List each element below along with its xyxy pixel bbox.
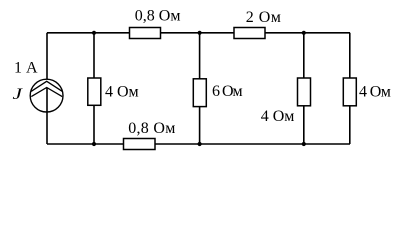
resistor 6 Ом (vertical, branch 3) (193, 79, 206, 107)
node: bottom junction of branch 3 (198, 142, 202, 146)
resistor 0,8 Ом (top left horizontal) (130, 28, 161, 39)
svg-text:J: J (13, 86, 24, 103)
wire: top horizontal from left branch to right branch (47, 32, 350, 34)
svg-text:4 Ом: 4 Ом (359, 84, 391, 101)
svg-text:4 Ом: 4 Ом (105, 83, 139, 100)
svg-text:4 Ом: 4 Ом (261, 108, 295, 125)
svg-text:0,8 Ом: 0,8 Ом (128, 120, 175, 137)
resistor 0,8 Ом (bottom horizontal) (124, 139, 156, 150)
current source J (circle with double arrowhead, GOST symbol) (30, 79, 63, 112)
svg-text:1 А: 1 А (14, 59, 38, 76)
wire: vertical branch 3 (6 Ом resistor) (199, 33, 201, 144)
wire: bottom horizontal from left branch to right branch (47, 143, 350, 145)
resistor 4 Ом (vertical, branch 4) (298, 78, 311, 106)
svg-text:2 Ом: 2 Ом (246, 9, 282, 26)
node: top junction of branch 4 (302, 31, 306, 35)
node: bottom junction of branch 4 (302, 142, 306, 146)
wire: vertical branch 4 (4 Ом resistor) (303, 33, 305, 144)
resistor 4 Ом (vertical, right branch) (343, 78, 356, 106)
node: top junction of branch 3 (198, 31, 202, 35)
node: bottom junction of branch 2 (92, 142, 96, 146)
resistor 4 Ом (vertical, branch 2) (88, 78, 101, 105)
wire: left vertical branch (through current source) (46, 33, 48, 79)
node: top junction of branch 2 (92, 31, 96, 35)
svg-text:6 Ом: 6 Ом (212, 83, 243, 100)
wire: right vertical branch (4 Ом resistor) (349, 33, 351, 144)
svg-text:0,8 Ом: 0,8 Ом (135, 8, 181, 25)
wire: vertical branch 2 (4 Ом resistor) (93, 33, 95, 144)
resistor 2 Ом (top right horizontal) (234, 28, 265, 39)
